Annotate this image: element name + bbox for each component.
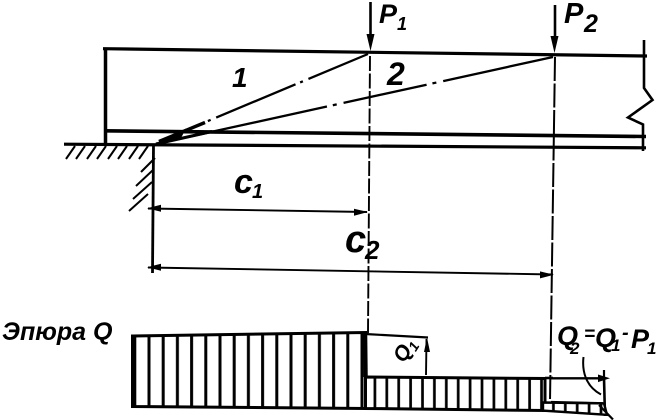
Q diagram block 1	[133, 333, 366, 409]
svg-text:P: P	[564, 0, 584, 30]
Q diagram block 2 top overshoot	[545, 377, 553, 380]
ground line	[64, 144, 646, 148]
svg-text:c: c	[234, 163, 253, 201]
label P2	[564, 0, 598, 38]
svg-text:2: 2	[386, 56, 405, 92]
Q1 dimension extension line	[365, 334, 428, 338]
svg-text:1: 1	[647, 339, 656, 358]
Q diagram block 2	[366, 377, 546, 411]
svg-text:1: 1	[232, 62, 248, 93]
beam bottom line	[104, 131, 646, 137]
label Q1 (rotated)	[389, 334, 423, 368]
force P2 arrow	[551, 5, 559, 53]
svg-text:Эпюра Q: Эпюра Q	[2, 318, 113, 346]
Q diagram block 1 right edge	[363, 333, 368, 377]
Q diagram step 3 hatched strip	[543, 403, 607, 415]
svg-text:1: 1	[397, 14, 407, 34]
Q diagram step 3 right edge	[604, 378, 605, 416]
support vertical / extension line	[153, 145, 154, 273]
label c2	[345, 219, 380, 265]
label Q2 = Q1 - P1	[557, 321, 656, 358]
label P1	[379, 0, 407, 34]
svg-text:-: -	[622, 322, 629, 344]
Q diagram bottom-right flick	[599, 405, 613, 420]
beam left edge	[104, 48, 108, 147]
ground hatching	[66, 146, 148, 159]
dimension c1	[147, 205, 368, 216]
svg-text:2: 2	[569, 339, 580, 358]
P2 reference line	[550, 57, 555, 401]
svg-text:c: c	[345, 219, 366, 261]
svg-text:2: 2	[364, 235, 380, 265]
Q diagram step 3 top line with arrow	[551, 370, 610, 382]
svg-text:=: =	[584, 324, 595, 345]
Q1 dimension arrow	[424, 338, 430, 376]
P1 reference line	[368, 56, 370, 333]
svg-text:1: 1	[611, 336, 620, 355]
svg-text:1: 1	[252, 181, 263, 203]
beam top line	[103, 49, 647, 56]
influence line 2	[156, 57, 553, 144]
beam right break	[628, 40, 653, 151]
svg-text:2: 2	[583, 10, 598, 38]
dimension c2	[147, 264, 554, 279]
Q2 leader curve	[583, 357, 601, 395]
support hatching	[129, 158, 155, 211]
svg-text:P: P	[379, 0, 398, 29]
label c1	[234, 163, 263, 203]
Q diagram step 3 inner bottom line	[551, 402, 603, 403]
force P1 arrow	[367, 2, 375, 51]
influence line 1	[159, 54, 368, 142]
